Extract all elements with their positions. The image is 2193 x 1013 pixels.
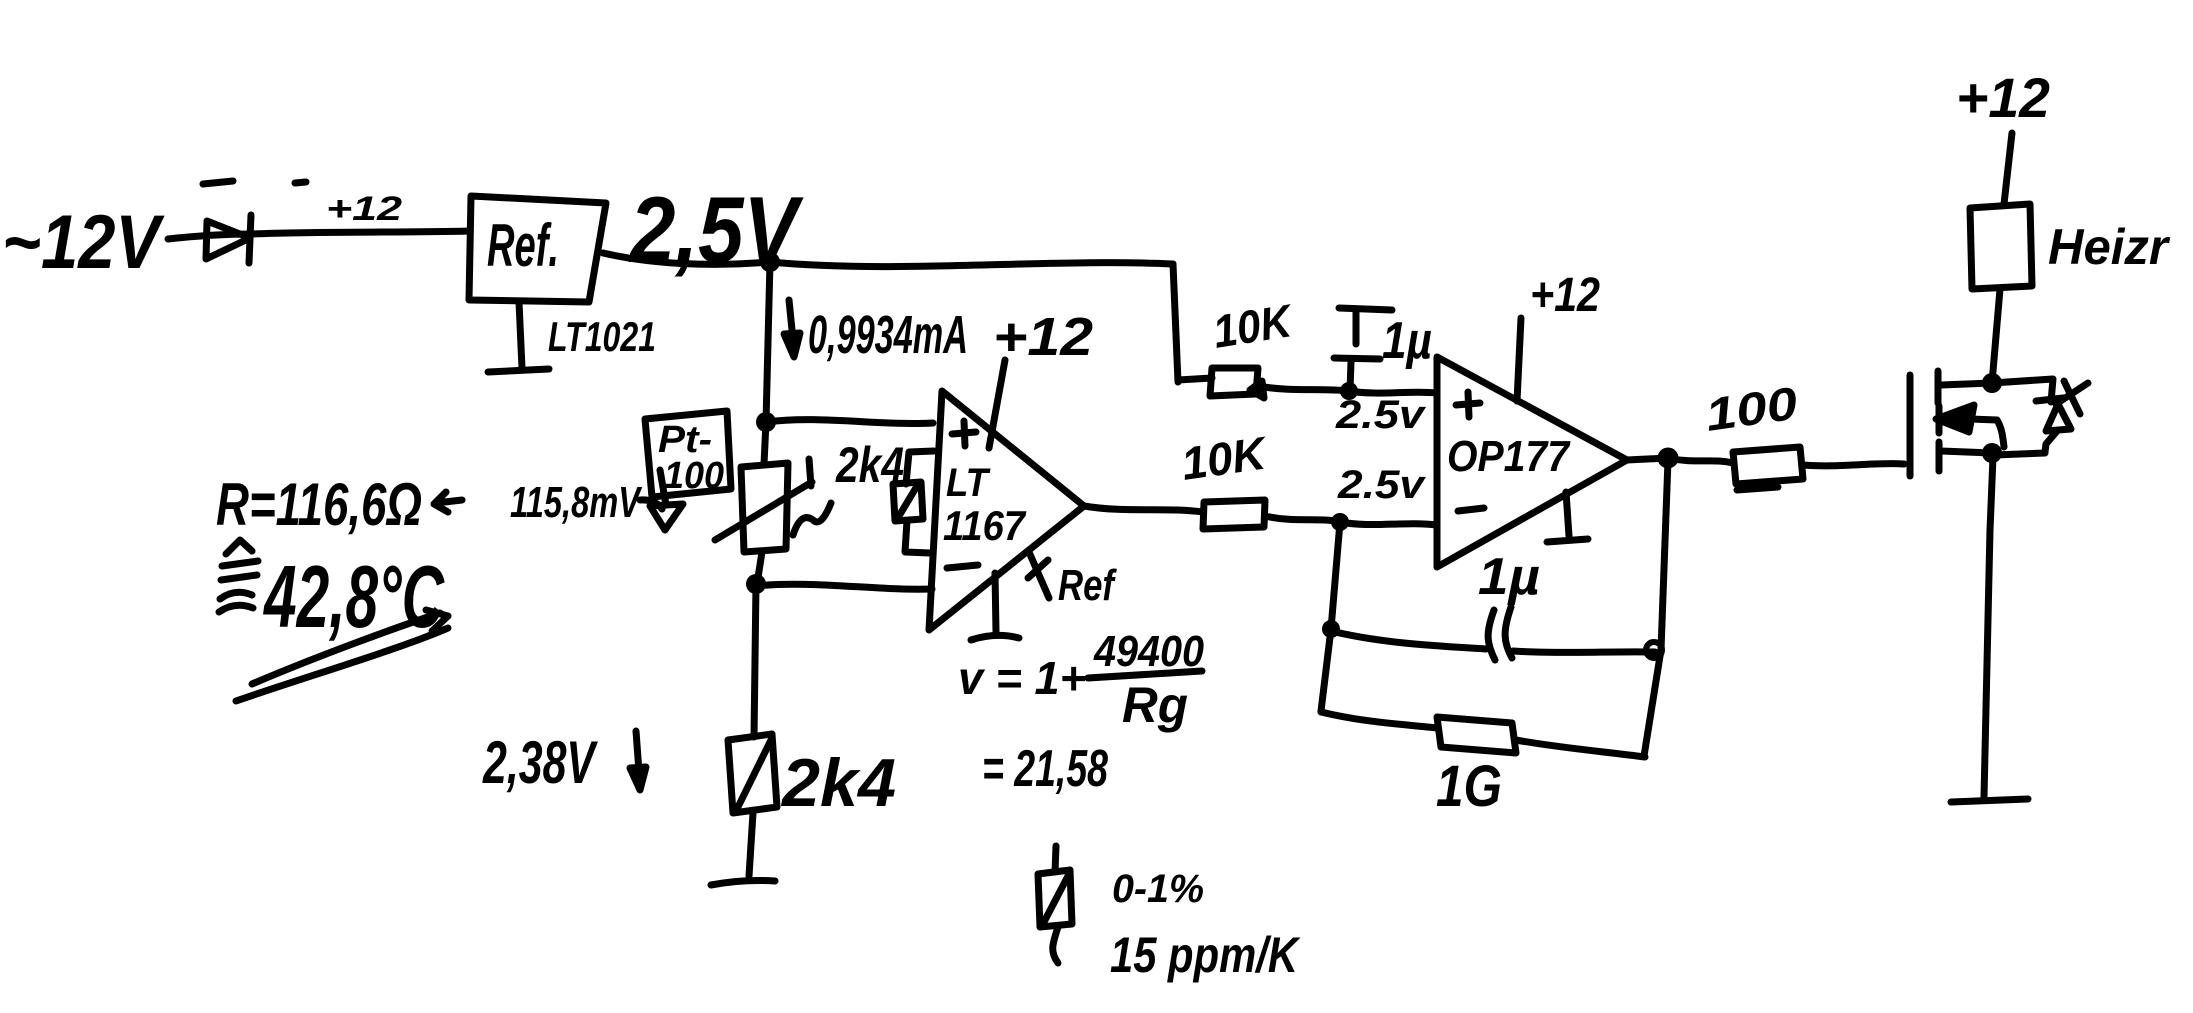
wire RTD bottom to node C xyxy=(757,552,762,584)
wire node G to capacitor C2 xyxy=(1331,631,1486,649)
wire U2 output to node F xyxy=(1627,458,1668,460)
wire +12 to heater xyxy=(2004,133,2012,204)
wire node A to corner right xyxy=(770,262,1173,267)
wire node A down to node B xyxy=(766,262,770,422)
wire +12 supply into U1 xyxy=(989,360,1005,448)
precision resistor note symbol xyxy=(1038,846,1072,963)
svg-text:v = 1+: v = 1+ xyxy=(958,652,1086,704)
wire +12 supply into U2 xyxy=(1517,318,1521,401)
wire heater to drain xyxy=(1992,289,2000,383)
svg-text:+12: +12 xyxy=(326,190,402,228)
stray pen marks xyxy=(203,181,306,184)
ground source xyxy=(1951,799,2028,802)
resistor R2 2k4 xyxy=(728,734,777,813)
node F junction dot xyxy=(1661,451,1675,465)
arrow under Pt-100 box xyxy=(640,470,683,530)
pin plus U2 xyxy=(1456,392,1480,417)
capacitor C2 feedback xyxy=(1488,607,1512,660)
svg-text:~12V: ~12V xyxy=(2,200,165,285)
wire diode to Ref box xyxy=(252,231,470,234)
voltage reference U3 Ref. box xyxy=(469,196,606,302)
svg-text:42,8°C: 42,8°C xyxy=(263,547,445,646)
wire Ref output to node A xyxy=(603,253,770,264)
transistor Q1 MOSFET xyxy=(1910,371,2088,476)
svg-text:10K: 10K xyxy=(1209,294,1297,358)
ground bottom of divider xyxy=(711,881,775,886)
svg-text:100: 100 xyxy=(664,455,724,497)
arrow left after R value xyxy=(434,492,462,512)
node drain junction dot xyxy=(1982,373,2002,393)
wire R4 to node E xyxy=(1265,516,1340,522)
resistor R4 10K bottom xyxy=(1203,500,1265,529)
diode D1 xyxy=(206,215,251,263)
svg-text:1µ: 1µ xyxy=(1382,312,1432,370)
svg-text:+12: +12 xyxy=(1956,66,2050,129)
arrow down beside 2,38V xyxy=(630,731,646,790)
pin minus U2 xyxy=(1458,508,1484,511)
corresponds symbol xyxy=(219,540,258,612)
capacitor C1 1u at plus input xyxy=(1334,308,1392,390)
op-amp U2 OP177 triangle xyxy=(1437,357,1627,567)
node C junction dot xyxy=(746,574,766,594)
svg-text:R=116,6Ω: R=116,6Ω xyxy=(216,471,422,538)
Pt-100 label box xyxy=(645,411,731,497)
wire node F down through node H to 1G xyxy=(1644,460,1668,756)
svg-text:10K: 10K xyxy=(1178,426,1271,490)
svg-text:1G: 1G xyxy=(1436,754,1502,819)
gain resistor Rg 2k4 xyxy=(893,451,934,553)
wire node C down to resistor R2 xyxy=(754,584,756,737)
svg-text:Ref.: Ref. xyxy=(487,212,559,279)
svg-text:2,38V: 2,38V xyxy=(482,729,598,796)
wire R5 to vertical xyxy=(1516,740,1645,757)
node G junction dot xyxy=(1322,620,1340,638)
pin minus U1 xyxy=(947,565,978,568)
wire node E down to node G xyxy=(1331,522,1340,629)
wire input to diode xyxy=(168,234,252,239)
svg-text:2.5v: 2.5v xyxy=(1337,463,1427,507)
ground pin U1 xyxy=(971,573,1019,640)
wire corner down xyxy=(1173,264,1178,382)
wire R3 to node D xyxy=(1258,386,1349,391)
op-amp U1 LT1167 triangle xyxy=(929,391,1084,630)
wire node D to U2 plus input xyxy=(1349,391,1437,393)
svg-text:2k4: 2k4 xyxy=(780,745,896,821)
svg-text:LT: LT xyxy=(946,461,991,505)
wire to resistor R3 xyxy=(1178,378,1212,380)
svg-text:0-1%: 0-1% xyxy=(1112,867,1204,911)
svg-text:+12: +12 xyxy=(993,307,1093,367)
wire node C to U1 minus input xyxy=(756,584,932,589)
svg-text:LT1021: LT1021 xyxy=(548,313,656,360)
wire node B to RTD xyxy=(764,422,766,464)
wire R6 to gate xyxy=(1803,464,1904,466)
svg-text:1µ: 1µ xyxy=(1478,548,1540,606)
wire capacitor C2 to node H xyxy=(1513,651,1655,652)
svg-text:2.5v: 2.5v xyxy=(1335,393,1427,437)
heater resistor R7 xyxy=(1970,204,2032,289)
svg-text:= 21,58: = 21,58 xyxy=(982,740,1108,798)
resistor R5 1G feedback xyxy=(1437,717,1516,753)
underline swoosh arrow xyxy=(236,610,448,701)
wire U1 output to R4 xyxy=(1084,506,1203,512)
wire node G down to resistor R5 xyxy=(1321,629,1331,711)
wire source to ground xyxy=(1984,457,1993,797)
svg-text:1167: 1167 xyxy=(943,502,1026,549)
node E junction dot xyxy=(1331,513,1349,531)
svg-text:100: 100 xyxy=(1702,377,1801,441)
svg-text:Heizr: Heizr xyxy=(2048,219,2170,275)
svg-text:115,8mV: 115,8mV xyxy=(510,478,643,527)
svg-text:Rg: Rg xyxy=(1122,677,1188,733)
resistor R6 100 xyxy=(1733,447,1803,490)
ground pin U2 xyxy=(1547,492,1588,542)
ground under reference xyxy=(488,302,549,372)
svg-text:+12: +12 xyxy=(1530,269,1600,322)
svg-text:0,9934mA: 0,9934mA xyxy=(808,305,968,365)
node A junction dot xyxy=(760,252,780,272)
node source junction dot xyxy=(1982,443,2002,463)
resistor R3 10K top xyxy=(1210,368,1264,398)
svg-text:OP177: OP177 xyxy=(1447,432,1571,481)
RTD sensor R1 Pt100 xyxy=(715,459,831,552)
gain formula v = 1+ 49400/Rg xyxy=(958,627,1204,733)
svg-text:Ref: Ref xyxy=(1058,561,1117,610)
node B junction dot xyxy=(756,412,776,432)
pin plus U1 xyxy=(952,421,976,446)
node D junction dot xyxy=(1340,382,1358,400)
wire R2 to ground xyxy=(749,813,753,876)
wire node E to U2 minus input xyxy=(1340,522,1437,525)
wire node B to U1 plus input xyxy=(766,420,933,424)
svg-text:2k4: 2k4 xyxy=(835,437,904,493)
ref pin tick U1 xyxy=(1028,552,1049,598)
current arrow xyxy=(784,300,800,357)
svg-text:15 ppm/K: 15 ppm/K xyxy=(1110,927,1301,983)
wire node F to resistor R6 xyxy=(1668,458,1733,463)
node H junction dot xyxy=(1646,642,1662,658)
wire to R5 xyxy=(1321,712,1437,728)
